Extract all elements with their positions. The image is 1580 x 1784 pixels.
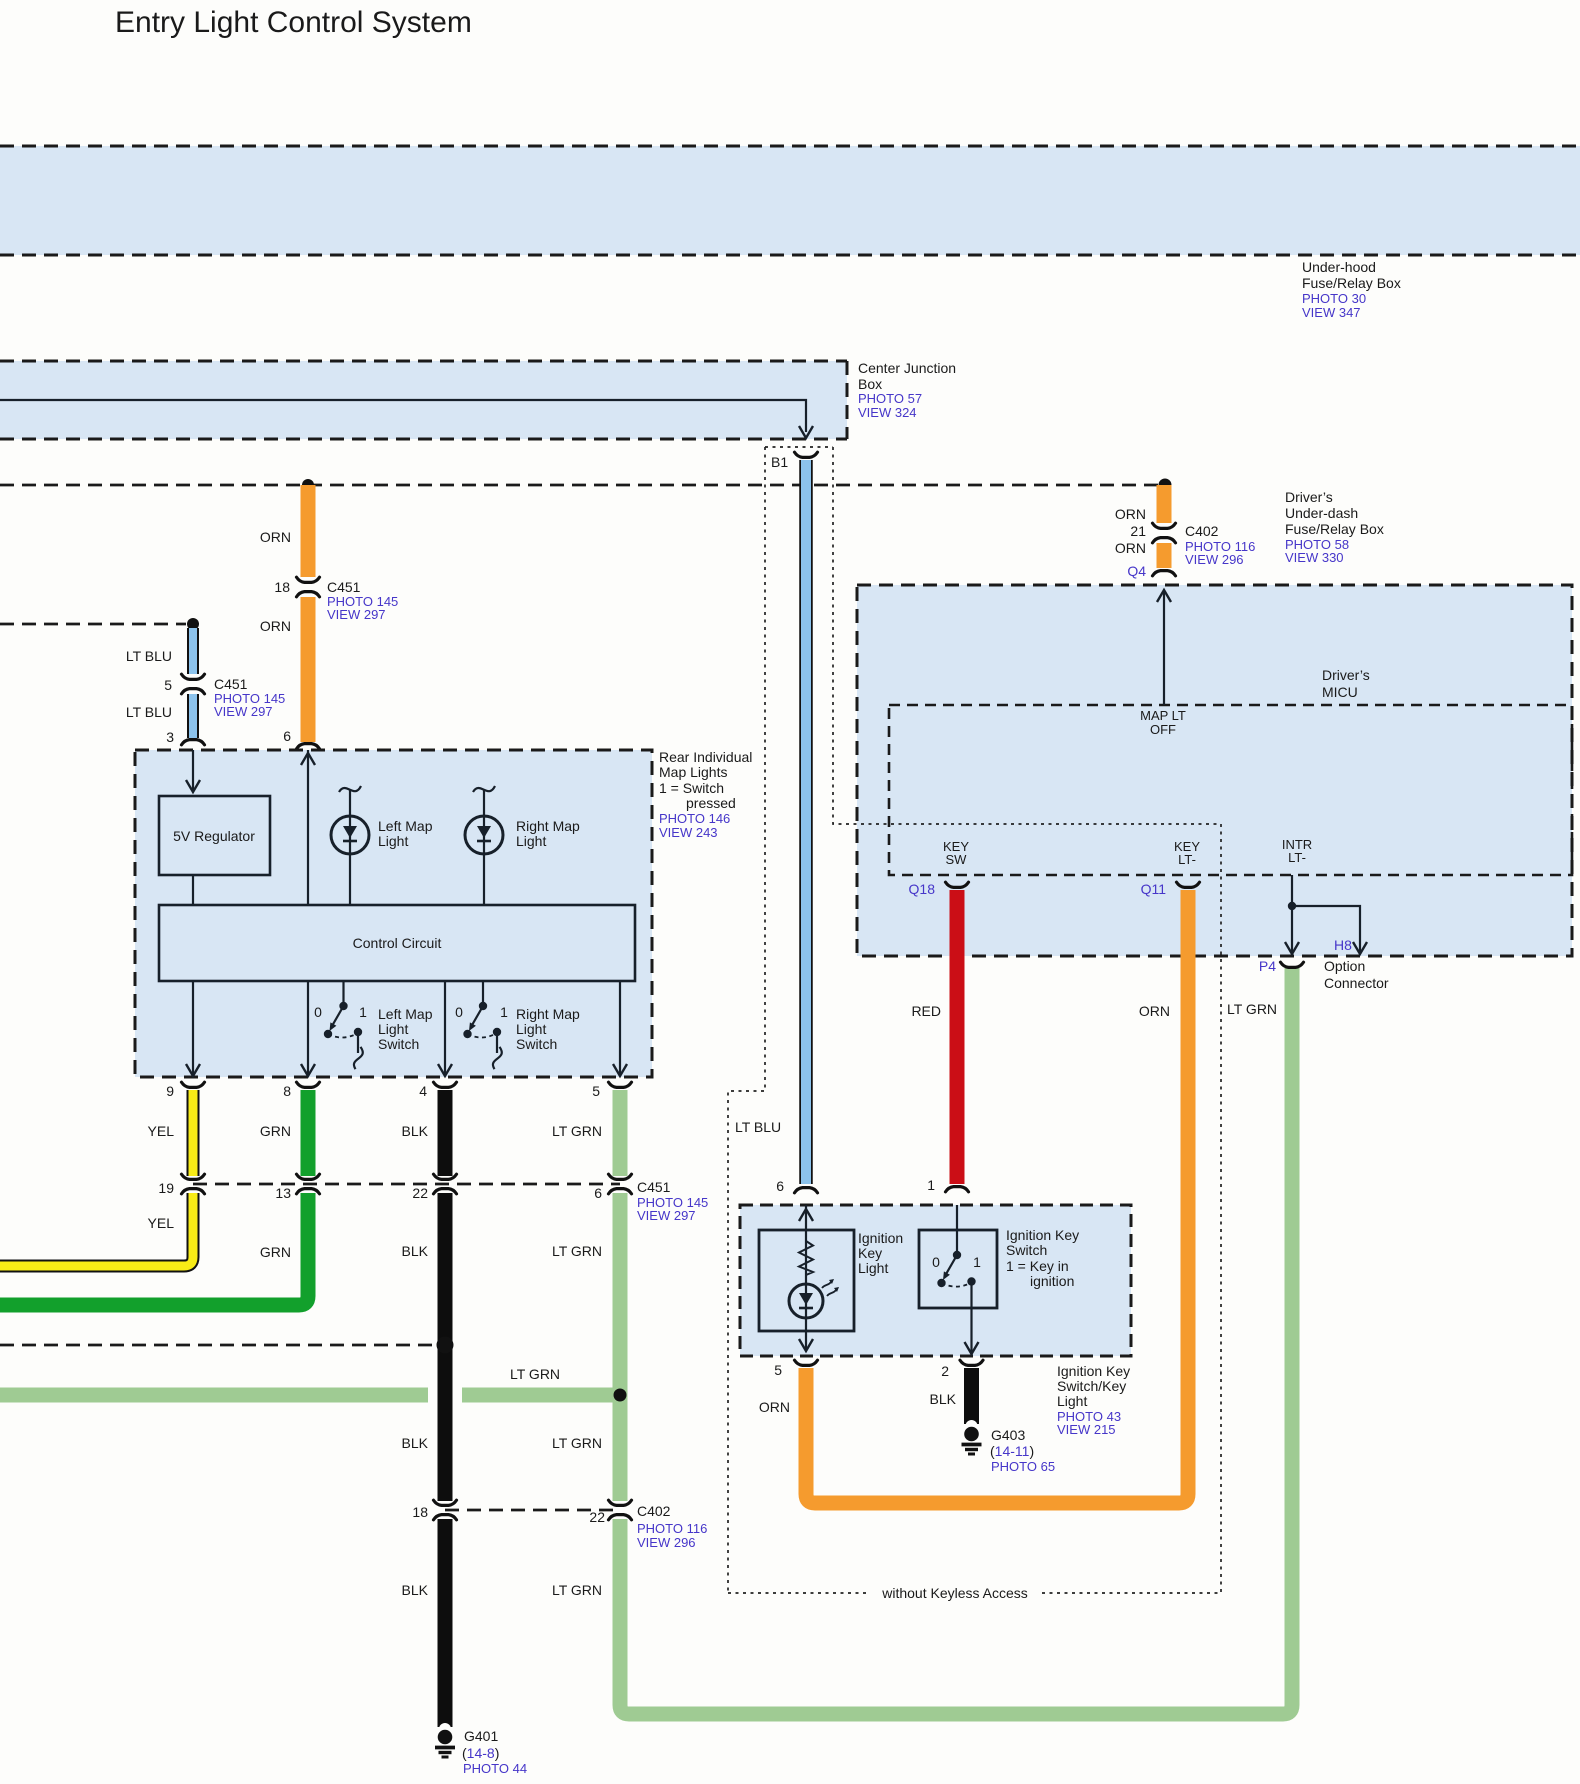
svg-text:Ignition: Ignition bbox=[858, 1230, 903, 1246]
svg-text:ORN: ORN bbox=[1115, 506, 1146, 522]
svg-text:OFF: OFF bbox=[1150, 722, 1176, 737]
svg-text:YEL: YEL bbox=[148, 1215, 175, 1231]
label: Left Map Light Switch bbox=[378, 1006, 433, 1052]
svg-text:Switch: Switch bbox=[516, 1036, 557, 1052]
svg-text:LT GRN: LT GRN bbox=[1227, 1001, 1277, 1017]
svg-text:PHOTO 116: PHOTO 116 bbox=[637, 1521, 707, 1536]
wire YEL lower to off-page left bbox=[0, 1193, 193, 1266]
label: 0 / 1 right switch bbox=[455, 1004, 508, 1020]
wire GRN lower to off-page left bbox=[0, 1193, 308, 1305]
svg-text:VIEW 297: VIEW 297 bbox=[214, 704, 273, 719]
svg-text:Q11: Q11 bbox=[1141, 881, 1167, 897]
svg-text:BLK: BLK bbox=[402, 1123, 429, 1139]
svg-text:LT BLU: LT BLU bbox=[126, 648, 172, 664]
svg-text:6: 6 bbox=[283, 728, 291, 744]
label: Ignition Key Switch 1 = Key in ignition bbox=[1006, 1227, 1079, 1289]
node: junction dot on LT GRN wire bbox=[614, 1389, 627, 1402]
svg-text:ORN: ORN bbox=[759, 1399, 790, 1415]
svg-text:Switch: Switch bbox=[378, 1036, 419, 1052]
svg-text:MAP LT: MAP LT bbox=[1140, 708, 1186, 723]
label: Center Junction Box bbox=[858, 360, 956, 420]
arrow: P4 down bbox=[1285, 942, 1299, 954]
svg-text:Left Map: Left Map bbox=[378, 818, 433, 834]
wire: dashed continuation line to BLK bbox=[0, 1344, 438, 1347]
svg-text:VIEW 243: VIEW 243 bbox=[659, 825, 718, 840]
svg-text:PHOTO 30: PHOTO 30 bbox=[1302, 291, 1366, 306]
wire LT BLU lower segment to map lights pin 3 bbox=[187, 694, 199, 738]
node: junction dot left ORN tap bbox=[302, 479, 314, 491]
svg-text:Ignition Key: Ignition Key bbox=[1057, 1363, 1130, 1379]
svg-text:PHOTO 65: PHOTO 65 bbox=[991, 1459, 1055, 1474]
svg-text:19: 19 bbox=[158, 1180, 174, 1196]
svg-text:VIEW 297: VIEW 297 bbox=[327, 607, 386, 622]
label: C402 PHOTO 116 VIEW 296 (right) bbox=[1185, 523, 1255, 567]
svg-text:Right Map: Right Map bbox=[516, 1006, 580, 1022]
svg-text:ORN: ORN bbox=[1139, 1003, 1170, 1019]
svg-text:22: 22 bbox=[589, 1509, 605, 1525]
wire: dashed harness line at C451 row bbox=[193, 1183, 620, 1186]
svg-text:Light: Light bbox=[858, 1260, 888, 1276]
svg-text:C451: C451 bbox=[214, 676, 248, 692]
connector C402 pin 21 bbox=[1153, 523, 1176, 543]
svg-text:Map Lights: Map Lights bbox=[659, 764, 727, 780]
label: MAP LT OFF bbox=[1140, 708, 1186, 737]
svg-text:C451: C451 bbox=[637, 1179, 671, 1195]
svg-text:Rear Individual: Rear Individual bbox=[659, 749, 752, 765]
wire: control circuit output x=308 bbox=[307, 981, 309, 1075]
wire LT GRN lower loop to P4 bbox=[620, 968, 1292, 1714]
label: Drivers MICU bbox=[1322, 667, 1370, 700]
wire: key light branch line bbox=[805, 1205, 807, 1349]
box: MICU inner logic block bbox=[889, 705, 1572, 875]
wire: dashed harness line at C402 row bbox=[445, 1509, 616, 1512]
svg-text:ORN: ORN bbox=[260, 618, 291, 634]
svg-text:Control Circuit: Control Circuit bbox=[353, 935, 442, 951]
label: G403 (14-11) PHOTO 65 bbox=[990, 1427, 1055, 1474]
svg-text:1 = Key in: 1 = Key in bbox=[1006, 1258, 1069, 1274]
svg-text:9: 9 bbox=[166, 1083, 174, 1099]
svg-text:2: 2 bbox=[941, 1363, 949, 1379]
svg-text:(14-11): (14-11) bbox=[990, 1443, 1034, 1459]
resistor R (key light) bbox=[799, 1241, 813, 1275]
switch: ignition key switch contacts bbox=[937, 1205, 975, 1352]
wire ORN lower segment to map lights pin 6 bbox=[301, 597, 316, 742]
label: pin numbers 9 8 4 5 bbox=[166, 1083, 600, 1099]
connector: Q11 bracket bbox=[1177, 882, 1200, 887]
wire BLK middle segment bbox=[438, 1193, 453, 1501]
svg-text:5: 5 bbox=[592, 1083, 600, 1099]
svg-text:Fuse/Relay Box: Fuse/Relay Box bbox=[1302, 275, 1401, 291]
svg-text:MICU: MICU bbox=[1322, 684, 1358, 700]
connector C451 pin 5/3 bbox=[182, 674, 205, 694]
svg-text:LT GRN: LT GRN bbox=[510, 1366, 560, 1382]
connector C451 pin 18 bbox=[297, 577, 320, 597]
connector: ignition pin 5 bracket bbox=[795, 1360, 818, 1365]
switch: Left Map Light Switch bbox=[324, 981, 366, 1069]
label: Ignition Key Light bbox=[858, 1230, 903, 1276]
block: Control Circuit bbox=[159, 905, 635, 981]
svg-text:5V Regulator: 5V Regulator bbox=[173, 828, 255, 844]
svg-text:Driver’s: Driver’s bbox=[1322, 667, 1370, 683]
connector: P4 bracket bbox=[1281, 962, 1304, 967]
svg-text:VIEW 297: VIEW 297 bbox=[637, 1208, 696, 1223]
svg-text:SW: SW bbox=[946, 852, 968, 867]
svg-text:LT GRN: LT GRN bbox=[552, 1435, 602, 1451]
svg-text:YEL: YEL bbox=[148, 1123, 175, 1139]
lamp: Ignition Key Light internal box bbox=[759, 1230, 854, 1331]
arrow: down at box pin x=308 bbox=[301, 1064, 315, 1076]
svg-text:Fuse/Relay Box: Fuse/Relay Box bbox=[1285, 521, 1384, 537]
connector C451 pin 13 bbox=[297, 1174, 320, 1194]
svg-text:Entry Light Control System: Entry Light Control System bbox=[115, 6, 472, 39]
connector C451 pin 22 bbox=[434, 1174, 457, 1194]
arrow: up toward pin 6 bbox=[799, 1209, 813, 1221]
connector: map lights pin 6 bracket bbox=[297, 744, 320, 749]
wire ORN right upper segment (bus to C402 pin 21) bbox=[1157, 485, 1172, 523]
node: junction dot on BLK wire bbox=[437, 1337, 454, 1354]
connector: box pin bracket x=620 bbox=[609, 1082, 632, 1087]
svg-text:5: 5 bbox=[774, 1362, 782, 1378]
svg-text:C451: C451 bbox=[327, 579, 361, 595]
svg-text:18: 18 bbox=[412, 1504, 428, 1520]
svg-text:LT GRN: LT GRN bbox=[552, 1243, 602, 1259]
svg-text:1: 1 bbox=[973, 1254, 981, 1270]
switch: Right Map Light Switch bbox=[463, 981, 505, 1069]
ground G403 bbox=[962, 1418, 982, 1454]
svg-text:Center Junction: Center Junction bbox=[858, 360, 956, 376]
svg-text:Left Map: Left Map bbox=[378, 1006, 433, 1022]
arrow: down at box pin x=620 bbox=[613, 1064, 627, 1076]
wire: bus line inside Center Junction Box to B1 bbox=[0, 400, 806, 432]
connector B1 pin bracket bbox=[795, 452, 818, 457]
svg-text:4: 4 bbox=[419, 1083, 427, 1099]
svg-text:Q4: Q4 bbox=[1127, 563, 1146, 579]
label: connector row C451 19 13 22 6 bbox=[158, 1179, 708, 1223]
svg-text:LT-: LT- bbox=[1288, 850, 1306, 865]
wire: INTR LT- branch lines bbox=[1288, 875, 1360, 952]
svg-text:C402: C402 bbox=[1185, 523, 1219, 539]
svg-text:VIEW 347: VIEW 347 bbox=[1302, 305, 1361, 320]
connector: ignition pin 6 bracket bbox=[795, 1188, 818, 1193]
svg-text:Option: Option bbox=[1324, 958, 1365, 974]
svg-text:RED: RED bbox=[911, 1003, 941, 1019]
svg-text:0: 0 bbox=[314, 1004, 322, 1020]
label: BLK LT GRN row4 bbox=[402, 1582, 602, 1598]
label: Right Map Light Switch bbox=[516, 1006, 580, 1052]
svg-text:P4: P4 bbox=[1259, 958, 1276, 974]
label: BLK LT GRN row3 bbox=[402, 1435, 602, 1451]
svg-text:Light: Light bbox=[378, 833, 408, 849]
svg-text:3: 3 bbox=[166, 729, 174, 745]
svg-text:Ignition Key: Ignition Key bbox=[1006, 1227, 1079, 1243]
label: Under-hood Fuse/Relay Box bbox=[1302, 259, 1401, 320]
svg-text:B1: B1 bbox=[771, 454, 788, 470]
label: YEL GRN BLK LT GRN row2 bbox=[148, 1215, 602, 1260]
svg-text:G401: G401 bbox=[464, 1728, 498, 1744]
wire LT GRN pin 5 upper bbox=[613, 1090, 628, 1176]
wire ORN upper segment to C451 pin 18 bbox=[301, 485, 316, 577]
svg-text:Right Map: Right Map bbox=[516, 818, 580, 834]
wire RED from Q18 to ignition key switch pin 1 bbox=[950, 890, 965, 1184]
connector C451 pin 19 bbox=[182, 1174, 205, 1194]
connector: Q4 pin bracket bbox=[1153, 571, 1176, 576]
svg-text:VIEW 296: VIEW 296 bbox=[637, 1535, 696, 1550]
svg-text:0: 0 bbox=[932, 1254, 940, 1270]
node: junction dot LT BLU tap bbox=[187, 618, 199, 630]
label: connector row C402 18 22 bbox=[412, 1503, 707, 1550]
label: YEL GRN BLK LT GRN row1 bbox=[148, 1123, 602, 1139]
svg-text:VIEW 296: VIEW 296 bbox=[1185, 552, 1244, 567]
svg-text:C402: C402 bbox=[637, 1503, 671, 1519]
svg-text:BLK: BLK bbox=[402, 1435, 429, 1451]
wire LT BLU upper segment to C451 pin 5 bbox=[187, 628, 199, 674]
svg-text:ORN: ORN bbox=[1115, 540, 1146, 556]
connector C451 pin 6 bbox=[609, 1174, 632, 1194]
svg-text:Light: Light bbox=[378, 1021, 408, 1037]
label: ORN 21 ORN Q4 bbox=[1115, 506, 1146, 579]
label: Rear Individual Map Lights bbox=[659, 749, 752, 840]
wire LT GRN middle segment bbox=[613, 1193, 628, 1501]
svg-text:GRN: GRN bbox=[260, 1123, 291, 1139]
arrow: down into B1 bbox=[799, 426, 813, 438]
wire: pin 6 line to control circuit bbox=[307, 750, 309, 905]
svg-text:G403: G403 bbox=[991, 1427, 1025, 1443]
box: Ignition Key Switch/Key Light unit bbox=[740, 1205, 1131, 1356]
svg-text:Under-hood: Under-hood bbox=[1302, 259, 1376, 275]
arrow: up toward pin 6 bbox=[301, 753, 315, 765]
svg-text:BLK: BLK bbox=[402, 1243, 429, 1259]
wire LT BLU from B1 down to ignition pin 6 bbox=[799, 460, 813, 1184]
svg-text:Light: Light bbox=[516, 833, 546, 849]
label: 0 / 1 left switch bbox=[314, 1004, 367, 1020]
wire: control circuit output x=620 bbox=[619, 981, 621, 1075]
svg-text:13: 13 bbox=[275, 1185, 291, 1201]
svg-text:Connector: Connector bbox=[1324, 975, 1389, 991]
connector: box pin bracket x=193 bbox=[182, 1082, 205, 1087]
svg-text:Light: Light bbox=[516, 1021, 546, 1037]
svg-text:PHOTO 44: PHOTO 44 bbox=[463, 1761, 527, 1776]
label: KEY SW bbox=[943, 839, 969, 867]
svg-text:6: 6 bbox=[776, 1178, 784, 1194]
svg-text:1: 1 bbox=[500, 1004, 508, 1020]
arrow: up toward Q4 bbox=[1157, 590, 1171, 602]
svg-text:LT BLU: LT BLU bbox=[126, 704, 172, 720]
label: G401 (14-8) PHOTO 44 bbox=[462, 1728, 527, 1776]
wire: control circuit output x=193 bbox=[192, 981, 194, 1075]
svg-text:VIEW 215: VIEW 215 bbox=[1057, 1422, 1116, 1437]
switch: Ignition Key Switch box bbox=[919, 1230, 997, 1308]
wire GRN pin 8 upper bbox=[301, 1090, 316, 1176]
box: Center Junction Box band bbox=[0, 361, 847, 439]
svg-text:Switch/Key: Switch/Key bbox=[1057, 1378, 1126, 1394]
svg-text:ignition: ignition bbox=[1030, 1273, 1074, 1289]
svg-text:LT GRN: LT GRN bbox=[552, 1123, 602, 1139]
label: INTR LT- bbox=[1282, 837, 1312, 865]
wire BLK pin 2 to G403 bbox=[964, 1368, 979, 1418]
svg-text:1: 1 bbox=[359, 1004, 367, 1020]
connector: box pin bracket x=445 bbox=[434, 1082, 457, 1087]
svg-text:Light: Light bbox=[1057, 1393, 1087, 1409]
wire BLK pin 4 upper bbox=[438, 1090, 453, 1176]
svg-text:VIEW 324: VIEW 324 bbox=[858, 405, 917, 420]
wire: dashed continuation line (ORN bus) bbox=[0, 484, 1165, 487]
svg-text:22: 22 bbox=[412, 1185, 428, 1201]
5V Regulator U1 bbox=[159, 796, 270, 875]
svg-text:without Keyless Access: without Keyless Access bbox=[881, 1585, 1028, 1601]
lamp: Right Map Light bbox=[465, 786, 503, 905]
wire LT GRN horizontal branch from off-page bbox=[0, 1388, 613, 1403]
wire ORN loop from Q11 down around to ignition pin 5 bbox=[806, 890, 1188, 1503]
connector: Q18 bracket bbox=[946, 882, 969, 887]
boundary: without Keyless Access dotted outline bbox=[728, 447, 1221, 1593]
svg-text:1 = Switch: 1 = Switch bbox=[659, 780, 724, 796]
svg-text:Driver’s: Driver’s bbox=[1285, 489, 1333, 505]
connector: map lights pin 3 bracket bbox=[182, 740, 205, 745]
arrow: down toward regulator bbox=[186, 780, 200, 792]
svg-text:LT-: LT- bbox=[1178, 852, 1196, 867]
wire: control circuit output x=445 bbox=[444, 981, 446, 1075]
label: Left Map Light bbox=[378, 818, 433, 849]
label: LT BLU 5 C451 LT BLU 3 bbox=[126, 648, 285, 745]
label: Ignition Key Switch/Key Light bbox=[1057, 1363, 1130, 1437]
label: ORN 18 C451 ORN 6 bbox=[260, 529, 398, 744]
ground G401 bbox=[435, 1714, 455, 1757]
svg-text:0: 0 bbox=[455, 1004, 463, 1020]
arrow: down toward pin 2 bbox=[965, 1342, 979, 1354]
svg-text:LT GRN: LT GRN bbox=[552, 1582, 602, 1598]
svg-text:6: 6 bbox=[594, 1185, 602, 1201]
svg-text:pressed: pressed bbox=[686, 795, 736, 811]
svg-text:Under-dash: Under-dash bbox=[1285, 505, 1358, 521]
arrow: down toward pin 5 bbox=[799, 1339, 813, 1351]
label: Option Connector bbox=[1324, 958, 1389, 991]
svg-text:18: 18 bbox=[274, 579, 290, 595]
wire ORN right lower segment to Q4 bbox=[1157, 543, 1172, 568]
svg-text:BLK: BLK bbox=[402, 1582, 429, 1598]
wire BLK lower segment to G401 bbox=[438, 1519, 453, 1714]
svg-text:21: 21 bbox=[1130, 523, 1146, 539]
connector C402 pin 18 bbox=[434, 1500, 457, 1520]
svg-text:Q18: Q18 bbox=[909, 881, 936, 897]
arrow: down at box pin x=445 bbox=[438, 1064, 452, 1076]
label: Drivers Under-dash Fuse/Relay Box bbox=[1285, 489, 1384, 565]
arrow: down at box pin x=193 bbox=[186, 1064, 200, 1076]
svg-text:8: 8 bbox=[283, 1083, 291, 1099]
connector: box pin bracket x=308 bbox=[297, 1082, 320, 1087]
label: 0 / 1 ignition switch bbox=[932, 1254, 981, 1270]
svg-text:Box: Box bbox=[858, 376, 882, 392]
svg-text:5: 5 bbox=[164, 677, 172, 693]
svg-text:GRN: GRN bbox=[260, 1244, 291, 1260]
lamp: Left Map Light bbox=[331, 786, 369, 905]
svg-text:1: 1 bbox=[927, 1177, 935, 1193]
arrow: H8 down bbox=[1353, 942, 1367, 954]
connector: ignition pin 1 bracket bbox=[946, 1187, 969, 1192]
label: KEY LT- bbox=[1174, 839, 1200, 867]
label: Right Map Light bbox=[516, 818, 580, 849]
wire: dashed continuation line (LT BLU bus) bbox=[0, 623, 186, 626]
svg-text:LT BLU: LT BLU bbox=[735, 1119, 781, 1135]
svg-text:VIEW 330: VIEW 330 bbox=[1285, 550, 1344, 565]
connector: ignition pin 2 bracket bbox=[960, 1360, 983, 1365]
svg-text:BLK: BLK bbox=[930, 1391, 957, 1407]
svg-text:H8: H8 bbox=[1334, 937, 1352, 953]
wire: regulator to control circuit bbox=[192, 875, 194, 905]
arrows: LED light emission bbox=[822, 1279, 839, 1296]
LED D (key light) bbox=[789, 1284, 823, 1318]
wire: MAP LT OFF output line bbox=[1163, 592, 1165, 705]
wire YEL pin 9 upper bbox=[187, 1090, 200, 1176]
svg-text:Key: Key bbox=[858, 1245, 882, 1261]
box: Rear Individual Map Lights bbox=[135, 750, 652, 1077]
node: junction dot right ORN tap bbox=[1159, 479, 1172, 492]
svg-text:PHOTO 57: PHOTO 57 bbox=[858, 391, 922, 406]
box: Under-hood Fuse/Relay Box band bbox=[0, 146, 1580, 255]
svg-text:PHOTO 146: PHOTO 146 bbox=[659, 811, 730, 826]
wire: pin 3 line into 5V regulator bbox=[192, 750, 194, 790]
svg-text:(14-8): (14-8) bbox=[462, 1745, 499, 1761]
connector C402 pin 22 bbox=[609, 1500, 632, 1520]
svg-text:ORN: ORN bbox=[260, 529, 291, 545]
svg-text:Switch: Switch bbox=[1006, 1242, 1047, 1258]
box: Drivers MICU bbox=[857, 585, 1572, 956]
